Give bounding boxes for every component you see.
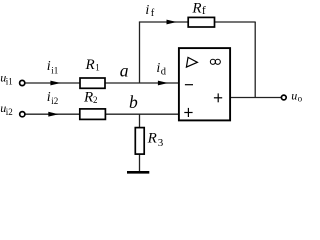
- svg-text:o: o: [298, 93, 303, 103]
- terminal u_o: [281, 95, 286, 100]
- op-amp inverting input minus: [185, 84, 193, 86]
- svg-text:d: d: [161, 67, 167, 78]
- svg-text:R: R: [85, 57, 95, 73]
- wire: right feedback vertical: [254, 22, 256, 98]
- svg-text:i1: i1: [51, 65, 58, 75]
- svg-text:i: i: [156, 61, 160, 76]
- svg-text:u: u: [291, 88, 297, 102]
- current arrow i_i1: [50, 81, 60, 86]
- wire: R3 branch down from node b: [139, 114, 141, 171]
- svg-text:i1: i1: [6, 76, 13, 86]
- terminal u_i1: [20, 80, 25, 85]
- wire: top feedback horizontal: [139, 21, 256, 23]
- current arrow i_f: [167, 20, 177, 25]
- svg-text:R: R: [83, 89, 93, 105]
- op-amp triangle symbol: [186, 57, 197, 67]
- op-amp output plus: [214, 97, 222, 99]
- svg-text:2: 2: [93, 95, 98, 105]
- wire: output: [230, 97, 281, 99]
- resistor Rf: [188, 17, 214, 27]
- svg-text:i: i: [145, 3, 149, 18]
- svg-text:i2: i2: [6, 107, 13, 117]
- svg-text:i: i: [47, 59, 51, 74]
- current arrow i_d: [158, 81, 168, 86]
- svg-text:R: R: [147, 131, 157, 147]
- svg-text:R: R: [191, 1, 201, 17]
- svg-text:3: 3: [158, 137, 164, 149]
- wire: feedback branch up from node a: [139, 22, 141, 84]
- current arrow i_i2: [48, 112, 58, 117]
- svg-text:i2: i2: [51, 96, 58, 106]
- resistor R3: [135, 128, 144, 155]
- svg-text:a: a: [120, 61, 129, 81]
- terminal u_i2: [20, 112, 25, 117]
- op-amp non-inverting input plus: [184, 112, 192, 114]
- wire: non-inverting input rail (u_i2 to op-amp): [25, 113, 179, 115]
- svg-text:1: 1: [95, 63, 100, 73]
- ground: [127, 171, 149, 174]
- svg-text:f: f: [151, 8, 155, 19]
- op-amp infinity symbol: [210, 59, 215, 64]
- wire: inverting input rail (u_i1 to op-amp): [25, 82, 179, 84]
- svg-text:b: b: [129, 92, 138, 112]
- resistor R1: [80, 78, 105, 88]
- svg-text:i: i: [47, 90, 51, 105]
- svg-text:f: f: [202, 5, 206, 17]
- resistor R2: [80, 109, 106, 120]
- op-amp U1 body: [179, 48, 230, 120]
